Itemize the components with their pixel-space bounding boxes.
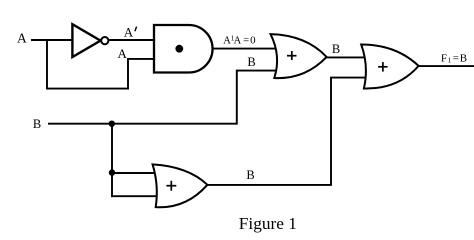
prime mark of A' [135,27,137,32]
svg-text:A: A [118,46,128,61]
wire A branch bottom horizontal [46,88,129,90]
or-gate U3 (upper OR) [271,34,327,78]
plus symbol in OR U5 [166,181,176,191]
svg-text:Figure 1: Figure 1 [239,214,297,233]
wire into OR3 lower input [111,195,158,197]
wire A input [31,39,73,41]
plus symbol in OR U3 [287,51,297,60]
wire OR2 output [418,65,474,67]
AND gate U2 [154,25,213,73]
wire B vertical drop [111,124,113,197]
svg-text:B: B [246,168,254,182]
svg-text:A: A [124,25,134,40]
wire OR3 output [206,184,332,186]
wire A branch up [127,59,129,90]
wire A branch vertical [46,39,48,89]
wire into AND lower input [127,58,154,60]
wire into OR3 upper input [111,172,158,174]
svg-text:=: = [243,36,249,47]
svg-text:B: B [332,42,340,56]
wire OR1 output [326,56,366,58]
svg-text:A: A [17,31,27,46]
svg-text:F: F [441,53,447,65]
wire riser from OR3 to OR2 lower input [331,78,366,185]
wire B riser to OR1 lower input [237,71,277,125]
svg-text:B: B [460,53,467,65]
svg-text:1: 1 [448,55,452,64]
wire NOT output to AND upper input [108,39,154,41]
inverter U1 (NOT gate) [72,24,100,57]
or-gate U5 (lower OR) [153,164,208,207]
svg-text:A: A [234,36,242,47]
or-gate U4 (right OR) [361,45,418,89]
svg-text:=: = [453,53,459,65]
plus symbol in OR U4 [378,62,388,72]
wire AND output [213,48,277,50]
dot inside AND gate [175,45,183,53]
svg-text:B: B [33,117,41,131]
inverter bubble [101,37,108,44]
svg-text:0: 0 [250,35,256,47]
junction dot 1 [109,121,115,127]
wire B input [48,123,237,125]
junction dot 2 [109,169,115,175]
svg-text:B: B [247,55,255,69]
